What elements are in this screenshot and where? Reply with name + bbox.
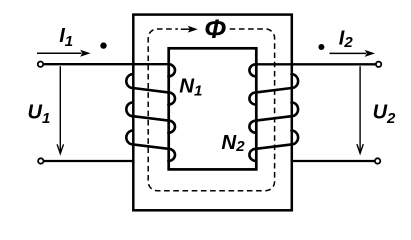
voltage arrow U1: [57, 66, 63, 153]
flux path dashed loop: [148, 29, 274, 191]
terminal bottom-left: [38, 158, 43, 163]
voltage arrow U2: [357, 66, 363, 153]
svg-text:Φ: Φ: [204, 14, 226, 44]
current arrow I2: [330, 50, 376, 57]
svg-text:U1: U1: [28, 102, 51, 127]
svg-text:N1: N1: [179, 74, 202, 99]
wire top-left (terminal to N1): [43, 63, 168, 65]
svg-text:I2: I2: [339, 27, 354, 51]
secondary winding coil N2: [249, 64, 298, 161]
svg-text:I1: I1: [59, 25, 73, 50]
transformer core outer outline: [133, 15, 291, 211]
terminal bottom-right: [375, 158, 380, 163]
polarity dot primary: [100, 42, 106, 48]
svg-text:U2: U2: [373, 102, 396, 128]
terminal top-right: [376, 62, 381, 67]
wire bottom-right (N2 to terminal): [291, 160, 375, 162]
flux direction arrow: [181, 26, 198, 33]
current arrow I1: [37, 50, 91, 57]
transformer core window: [169, 48, 257, 169]
polarity dot secondary: [318, 44, 324, 50]
terminal top-left: [38, 61, 43, 66]
wire bottom-left (terminal to N1): [44, 160, 134, 162]
primary winding coil N1: [126, 64, 175, 161]
wire top-right (N2 to terminal): [256, 63, 376, 65]
svg-text:N2: N2: [221, 131, 245, 155]
